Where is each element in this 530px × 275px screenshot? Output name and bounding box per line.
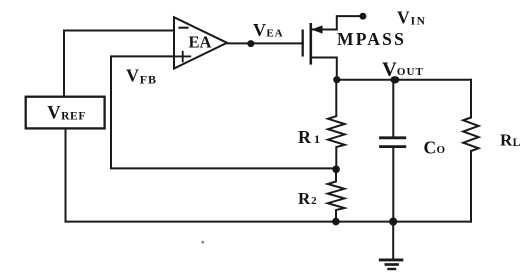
transistor MPASS drain terminal wire down to VOUT rail — [311, 58, 337, 80]
svg-text:MPASS: MPASS — [337, 29, 406, 49]
capacitor Co bottom plate — [381, 145, 405, 148]
resistor R1 branch below drain — [328, 80, 345, 170]
node: R1/R2 feedback junction dot — [332, 166, 340, 174]
scan speck: period mark bottom centre-left — [201, 241, 204, 244]
wire: EA inverting input down to VREF box top — [64, 31, 174, 97]
op-amp U1 EA triangle — [174, 17, 227, 68]
ground bar 1 — [380, 258, 402, 261]
wire: bottom ground rail — [66, 221, 472, 223]
ground bar 2 — [386, 263, 398, 266]
transistor MPASS source arrow — [311, 25, 322, 33]
svg-text:EA: EA — [189, 33, 212, 52]
node VIN terminal dot — [359, 13, 366, 20]
op-amp plus input sign — [174, 52, 190, 62]
transistor MPASS source terminal wire to VIN dot — [311, 16, 363, 29]
op-amp minus input sign — [180, 27, 188, 29]
node: ground rail junction dot — [389, 218, 397, 226]
resistor R2 branch — [328, 169, 345, 221]
capacitor Co branch: upper wire — [392, 80, 394, 137]
ground stem — [392, 222, 394, 260]
wire: VREF box bottom down to ground rail — [65, 128, 67, 221]
node: R2 bottom rail junction dot — [332, 218, 340, 226]
node VOUT dot — [390, 76, 399, 83]
node VEA junction dot — [247, 40, 254, 47]
capacitor Co top plate — [381, 136, 405, 139]
ground bar 3 — [389, 268, 396, 270]
wire: feedback V_FB from EA non-inverting input to R1/R2 junction — [111, 56, 336, 168]
transistor MPASS channel bar — [309, 24, 312, 63]
wire: VOUT rail — [337, 79, 471, 81]
capacitor Co branch: lower wire — [392, 148, 394, 222]
transistor MPASS gate bar — [302, 31, 304, 56]
node: drain / VOUT rail junction dot — [333, 76, 340, 83]
voltage reference box VREF — [26, 97, 105, 129]
resistor RL branch: right vertical with zigzag — [463, 80, 478, 222]
wire: EA output to MPASS gate — [227, 42, 303, 44]
